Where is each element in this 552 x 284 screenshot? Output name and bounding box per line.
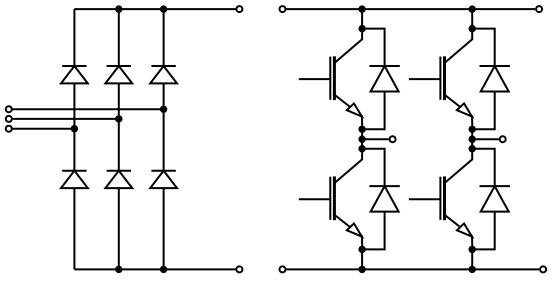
junction Q3 emitter node — [469, 126, 476, 133]
transistor Q3 body bar — [443, 56, 446, 100]
terminal AC input S — [6, 116, 12, 122]
junction bottom rail col3 — [160, 266, 167, 273]
junction bottom rail col2 — [115, 266, 122, 273]
wire Q3 collector-diode branch — [472, 29, 495, 66]
junction Q2 collector node — [358, 145, 365, 152]
transistor Q4 emitter arrow — [457, 224, 472, 237]
diode D5 — [105, 171, 132, 188]
terminal inverter N left — [280, 266, 286, 272]
junction leg2 output node — [469, 136, 476, 143]
terminal inverter P left — [280, 6, 286, 12]
terminal inverter P right — [536, 6, 542, 12]
wire leg2 AC output — [472, 138, 499, 140]
wire Q1 collector — [335, 29, 362, 63]
terminal inverter N right — [540, 266, 546, 272]
junction input R col3 — [160, 106, 167, 113]
terminal AC input T — [6, 126, 12, 132]
terminal leg2 AC output — [500, 136, 506, 142]
transistor Q1 high-side gate lead — [299, 78, 331, 80]
wire AC input T — [12, 128, 74, 130]
wire Q4 emitter — [445, 215, 473, 249]
wire leg1 AC output — [362, 138, 389, 140]
terminal rectifier DC- — [236, 266, 242, 272]
diode D1 cathode bar — [62, 65, 86, 67]
wire leg1 midpoint column — [361, 129, 363, 148]
junction top rail col3 — [160, 5, 167, 12]
transistor Q4 low-side gate lead — [409, 198, 441, 200]
transistor Q1 gate bar — [329, 57, 331, 100]
transistor Q2 body bar — [333, 176, 336, 220]
diode FWD4 cathode bar — [480, 185, 510, 187]
diode D5 cathode bar — [107, 170, 131, 172]
junction input S col2 — [115, 115, 122, 122]
wire AC input S — [12, 118, 118, 120]
diode D6 cathode bar — [151, 170, 175, 172]
junction Q2 emitter node — [358, 246, 365, 253]
junction Q4 collector node — [469, 145, 476, 152]
transistor Q2 gate bar — [329, 177, 331, 220]
transistor Q3 high-side gate lead — [409, 78, 441, 80]
wire Q2 collector — [335, 149, 362, 183]
wire Q3 collector — [445, 29, 472, 63]
junction leg1 P-rail — [358, 5, 365, 12]
transistor Q1 body bar — [333, 56, 336, 100]
transistor Q3 emitter arrow — [457, 103, 472, 116]
wire Q1 collector-diode branch — [362, 29, 385, 66]
junction Q3 collector node — [469, 25, 476, 32]
transistor Q2 low-side gate lead — [299, 198, 331, 200]
diode D2 cathode bar — [107, 65, 131, 67]
junction leg1 N-rail — [358, 266, 365, 273]
junction leg1 output node — [358, 136, 365, 143]
wire inverter P-rail — [286, 8, 535, 10]
wire leg2 N-rail drop — [471, 249, 473, 269]
diode FWD4 — [481, 186, 509, 212]
junction input T col1 — [71, 125, 78, 132]
wire leg2 midpoint column — [471, 129, 473, 148]
diode FWD3 cathode bar — [480, 65, 510, 67]
transistor Q4 body bar — [443, 176, 446, 220]
diode FWD2 cathode bar — [369, 185, 399, 187]
terminal rectifier DC+ — [236, 6, 242, 12]
junction Q1 collector node — [358, 25, 365, 32]
junction Q4 emitter node — [469, 246, 476, 253]
wire Q1 emitter — [335, 95, 363, 129]
junction leg2 N-rail — [469, 266, 476, 273]
wire FWD3 anode return — [472, 92, 495, 130]
junction leg2 P-rail — [469, 5, 476, 12]
diode D6 — [150, 171, 177, 188]
wire N-rail rectifier bottom — [74, 268, 235, 270]
wire rectifier phase column 2 — [118, 9, 120, 269]
wire inverter N-rail — [286, 268, 539, 270]
diode D4 cathode bar — [62, 170, 86, 172]
diode D4 — [61, 171, 88, 188]
diode D3 — [150, 66, 177, 83]
transistor Q1 emitter arrow — [347, 103, 362, 116]
diode FWD1 cathode bar — [369, 65, 399, 67]
wire FWD4 anode return — [472, 212, 495, 250]
wire rectifier phase column 3 — [163, 9, 165, 269]
wire Q2 collector-diode branch — [362, 149, 385, 186]
wire AC input R — [12, 108, 163, 110]
transistor Q4 gate bar — [439, 177, 441, 220]
transistor Q2 emitter arrow — [347, 224, 362, 237]
diode D1 — [61, 66, 88, 83]
diode D3 cathode bar — [151, 65, 175, 67]
junction top rail col2 — [115, 5, 122, 12]
wire FWD1 anode return — [362, 92, 385, 130]
wire leg1 P-rail drop — [361, 9, 363, 29]
wire leg1 N-rail drop — [361, 249, 363, 269]
wire leg2 P-rail drop — [471, 9, 473, 29]
wire Q2 emitter — [335, 215, 363, 249]
diode D2 — [105, 66, 132, 83]
diode FWD3 — [481, 66, 509, 92]
diode FWD1 — [371, 66, 399, 92]
diode FWD2 — [371, 186, 399, 212]
junction Q1 emitter node — [358, 126, 365, 133]
wire Q4 collector — [445, 149, 472, 183]
wire FWD2 anode return — [362, 212, 385, 250]
wire rectifier phase column 1 — [73, 9, 75, 269]
wire Q4 collector-diode branch — [472, 149, 495, 186]
terminal AC input R — [6, 106, 12, 112]
wire Q3 emitter — [445, 95, 473, 129]
transistor Q3 gate bar — [439, 57, 441, 100]
terminal leg1 AC output — [390, 136, 396, 142]
wire P-rail rectifier top — [74, 8, 235, 10]
